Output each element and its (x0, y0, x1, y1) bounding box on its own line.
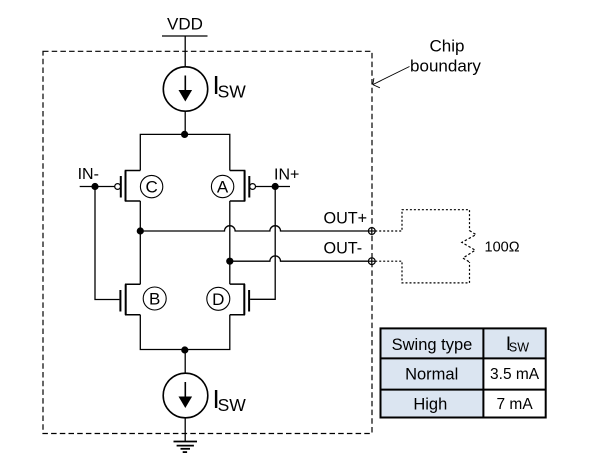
VDD rail bar (162, 35, 208, 37)
node top rail (181, 131, 188, 138)
wire C source to B drain (left vertical) (139, 201, 141, 284)
ground (174, 442, 198, 453)
node OUT- right (226, 258, 233, 265)
svg-text:IN-: IN- (78, 166, 99, 183)
svg-text:SW: SW (509, 341, 529, 355)
svg-text:Normal: Normal (405, 366, 458, 384)
svg-text:B: B (149, 290, 160, 309)
load wiring (dotted, off-chip) (375, 210, 469, 283)
transistor B (NMOS) (120, 284, 140, 315)
chip boundary (43, 51, 372, 433)
wire join to current source (184, 350, 186, 374)
wire OUT- with hop (230, 256, 369, 261)
wire OUT+ with hops (140, 226, 368, 231)
wire VDD to current source (184, 36, 186, 67)
svg-text:D: D (212, 290, 224, 309)
wire top rail (140, 134, 230, 170)
transistor A (PMOS) (230, 171, 256, 202)
label ISW (bottom) (213, 384, 247, 415)
label ISW (top) (213, 70, 247, 101)
wire IN+ to gate D (250, 187, 275, 300)
wire IN- to gate B (95, 187, 119, 300)
wire current source to rail (184, 111, 186, 134)
wire B/D sources join (140, 315, 230, 350)
transistor C (PMOS) (115, 171, 141, 202)
node OUT+ left (137, 227, 144, 234)
wire current source to ground (184, 418, 186, 442)
leader arrow to boundary (373, 67, 410, 88)
resistor 100 ohm (dashed zigzag) (462, 231, 476, 262)
svg-text:boundary: boundary (410, 57, 481, 76)
IN- input (78, 166, 115, 190)
label circle B (143, 287, 166, 310)
svg-text:Swing type: Swing type (392, 336, 473, 354)
svg-text:A: A (217, 178, 229, 197)
svg-text:3.5 mA: 3.5 mA (490, 366, 540, 383)
svg-text:VDD: VDD (167, 15, 203, 34)
label circle C (140, 175, 162, 197)
wire A source to D drain (right vertical) (229, 201, 231, 284)
label Chip boundary (410, 37, 481, 76)
label circle A (211, 175, 233, 197)
current source ISW (bottom) (163, 373, 208, 418)
current source ISW (top) (163, 67, 207, 111)
svg-text:100Ω: 100Ω (485, 239, 520, 255)
terminal OUT+ (368, 228, 375, 235)
transistor D (NMOS) (230, 284, 249, 315)
svg-text:OUT-: OUT- (324, 240, 363, 258)
svg-text:IN+: IN+ (274, 167, 299, 184)
table swing type (381, 328, 546, 417)
svg-text:High: High (413, 395, 447, 413)
IN+ input (256, 167, 300, 191)
svg-text:7 mA: 7 mA (497, 396, 534, 413)
label circle D (207, 287, 230, 310)
svg-text:SW: SW (218, 395, 247, 415)
svg-text:OUT+: OUT+ (324, 209, 368, 227)
svg-text:Chip: Chip (430, 37, 465, 56)
svg-text:C: C (145, 178, 157, 197)
svg-text:SW: SW (218, 82, 247, 102)
node bottom join (181, 346, 188, 353)
terminal OUT- (368, 258, 375, 265)
